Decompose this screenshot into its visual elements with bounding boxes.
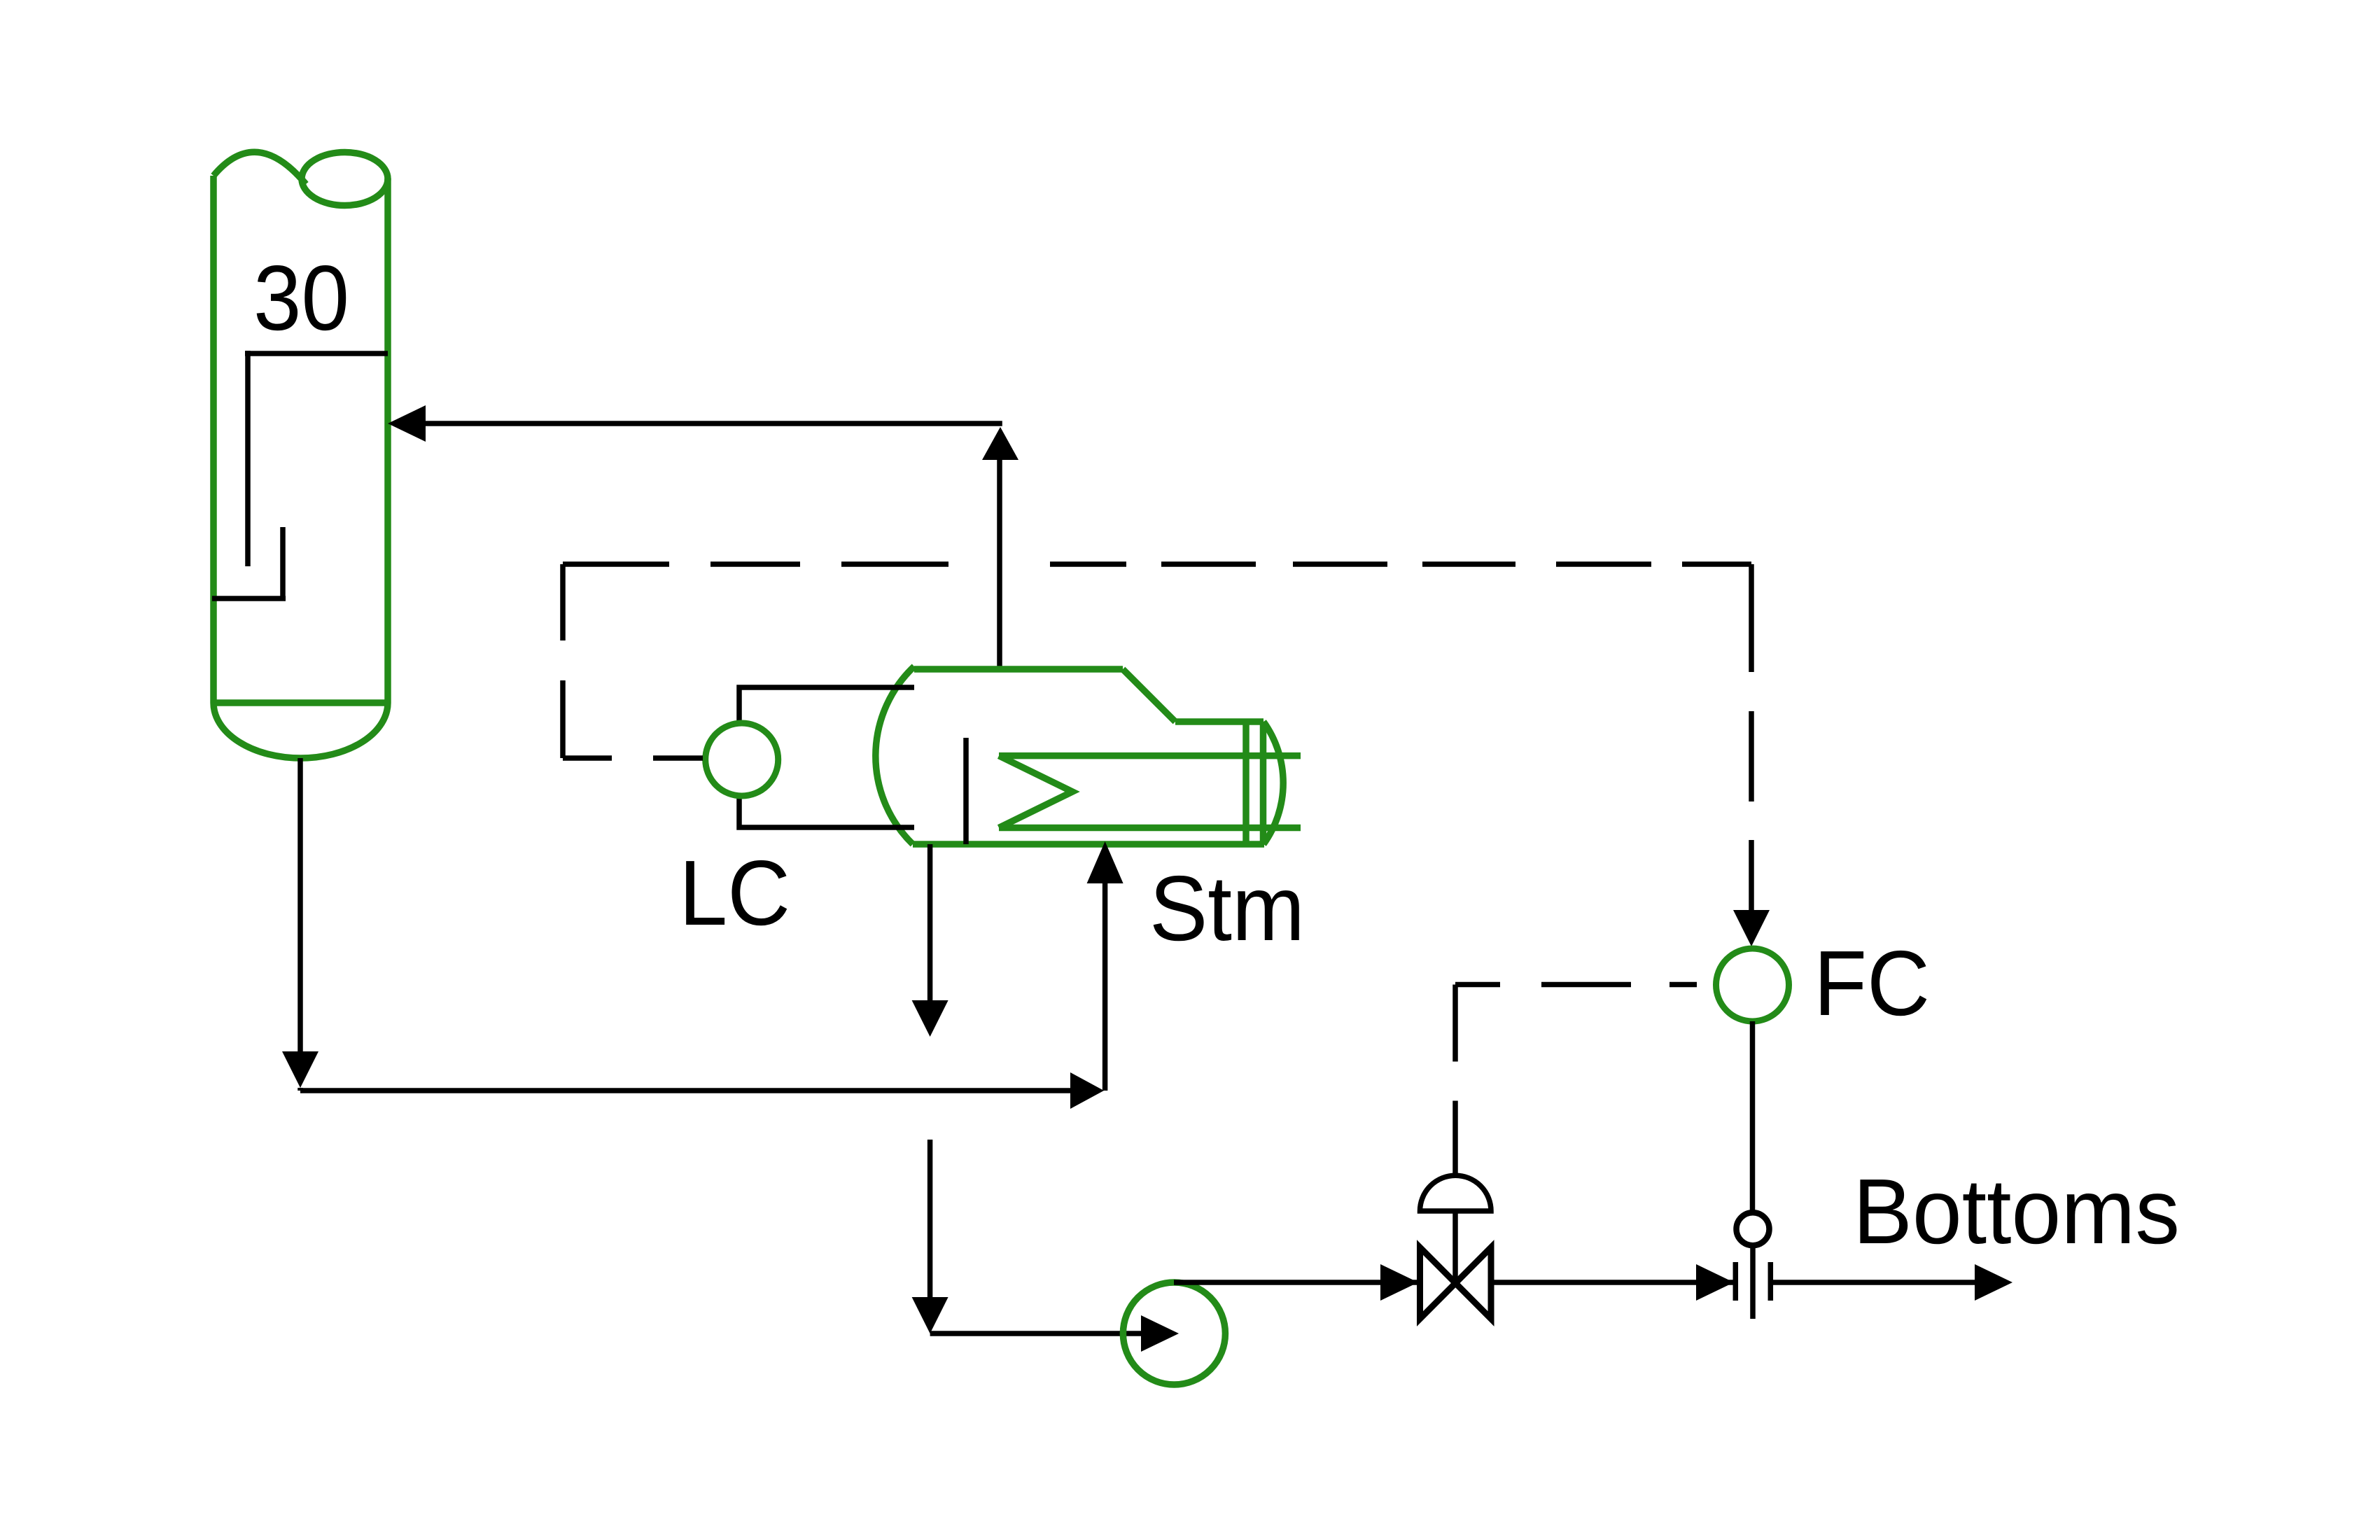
- wire: drop from column: [297, 758, 303, 1053]
- wire: valve to orifice: [1491, 1280, 1736, 1285]
- control valve actuator dome: [1420, 1175, 1492, 1211]
- arrowhead into steam riser junction: [1070, 1072, 1104, 1109]
- valve stem: [1452, 1211, 1458, 1282]
- LC level bridle: [739, 687, 914, 827]
- reboiler bottoms outlet: [930, 844, 1148, 1333]
- arrowhead into pump: [1141, 1315, 1179, 1352]
- reboiler top line: [914, 666, 1123, 673]
- tube bundle top rail: [999, 752, 1301, 759]
- arrowhead into FC: [1733, 910, 1770, 946]
- wire: vapor horizontal run: [426, 421, 1002, 426]
- column C1 shell: [213, 152, 388, 758]
- arrowhead bottoms end: [1975, 1264, 2012, 1301]
- column top break lens: [302, 153, 388, 206]
- dashed top run after crossing: [1050, 561, 1751, 567]
- orifice flange right: [1768, 1262, 1774, 1301]
- tube sheet vertical 2: [1260, 722, 1267, 844]
- flow transmitter stem lower: [1750, 1245, 1756, 1319]
- orifice flange left: [1733, 1262, 1739, 1301]
- FC signal to valve: [1455, 985, 1716, 1176]
- bottom tray line: [212, 596, 286, 601]
- reboiler cone: [1123, 669, 1175, 722]
- wire: drop lower segment: [927, 1140, 933, 1297]
- column bottom dish: [213, 703, 388, 758]
- tray deck line: [245, 351, 388, 356]
- bottoms product line: [1174, 1280, 1975, 1285]
- wire: run to pump: [930, 1331, 1148, 1336]
- tray 30 internals: [212, 351, 388, 598]
- FC controller circle: [1716, 948, 1789, 1021]
- bridle bottom tap: [739, 796, 914, 827]
- dashed drop to FC: [1749, 564, 1754, 916]
- column left wall: [210, 176, 217, 703]
- dashed riser: [560, 564, 566, 758]
- steam feed riser: [1102, 883, 1108, 1091]
- dashed run FC to valve corner: [1455, 982, 1716, 988]
- tube bundle bottom rail: [999, 825, 1301, 832]
- downcomer: [245, 351, 251, 566]
- weir: [280, 527, 286, 598]
- arrowhead down above crossing: [912, 1000, 948, 1037]
- bridle top tap: [739, 687, 914, 723]
- dashed top run to FC: [563, 561, 948, 567]
- arrowhead into orifice: [1696, 1264, 1734, 1301]
- LC controller circle: [706, 723, 778, 796]
- arrowhead down at pump corner: [912, 1297, 948, 1333]
- svg-text:Bottoms: Bottoms: [1853, 1160, 2180, 1263]
- flow transmitter circle: [1737, 1212, 1770, 1245]
- corner stub: [297, 1088, 303, 1091]
- reboiler internal weir: [963, 738, 969, 844]
- arrowhead down at outlet corner: [282, 1051, 318, 1088]
- pump circle: [1123, 1282, 1225, 1385]
- wire: run to reboiler feed riser: [300, 1088, 1072, 1093]
- vapor return line: [426, 423, 1002, 669]
- svg-text:LC: LC: [679, 841, 790, 944]
- column bottoms outlet: [300, 758, 1072, 1091]
- control valve body: [1420, 1247, 1492, 1319]
- svg-text:30: 30: [253, 246, 349, 349]
- wire: pump discharge to valve: [1174, 1280, 1420, 1285]
- wire: vapor riser from reboiler: [997, 458, 1002, 669]
- arrowhead into column: [388, 405, 426, 442]
- wire: drop upper segment: [927, 844, 933, 1001]
- wire: orifice to end: [1769, 1280, 1975, 1285]
- column right wall: [384, 178, 391, 703]
- reboiler left head: [876, 666, 914, 844]
- dashed drop to actuator: [1452, 985, 1458, 1176]
- LC signal dashed lines: [563, 564, 1751, 916]
- kettle reboiler shell: [876, 666, 1301, 844]
- reboiler bottom line: [913, 841, 1264, 848]
- svg-text:Stm: Stm: [1149, 857, 1305, 960]
- tube bundle U-bend: [999, 756, 1072, 828]
- flow transmitter stem upper: [1750, 1021, 1756, 1213]
- arrowhead up at vapor corner: [982, 427, 1018, 460]
- tube sheet vertical 1: [1242, 722, 1249, 844]
- reboiler upper right line: [1175, 718, 1263, 725]
- svg-text:FC: FC: [1814, 932, 1930, 1035]
- column top break dome: [213, 152, 306, 184]
- right end cap arc: [1263, 722, 1283, 844]
- arrowhead into valve: [1380, 1264, 1418, 1301]
- dashed run LC to riser: [563, 755, 703, 761]
- arrowhead up into reboiler: [1087, 841, 1123, 883]
- column bottom seam: [213, 699, 388, 706]
